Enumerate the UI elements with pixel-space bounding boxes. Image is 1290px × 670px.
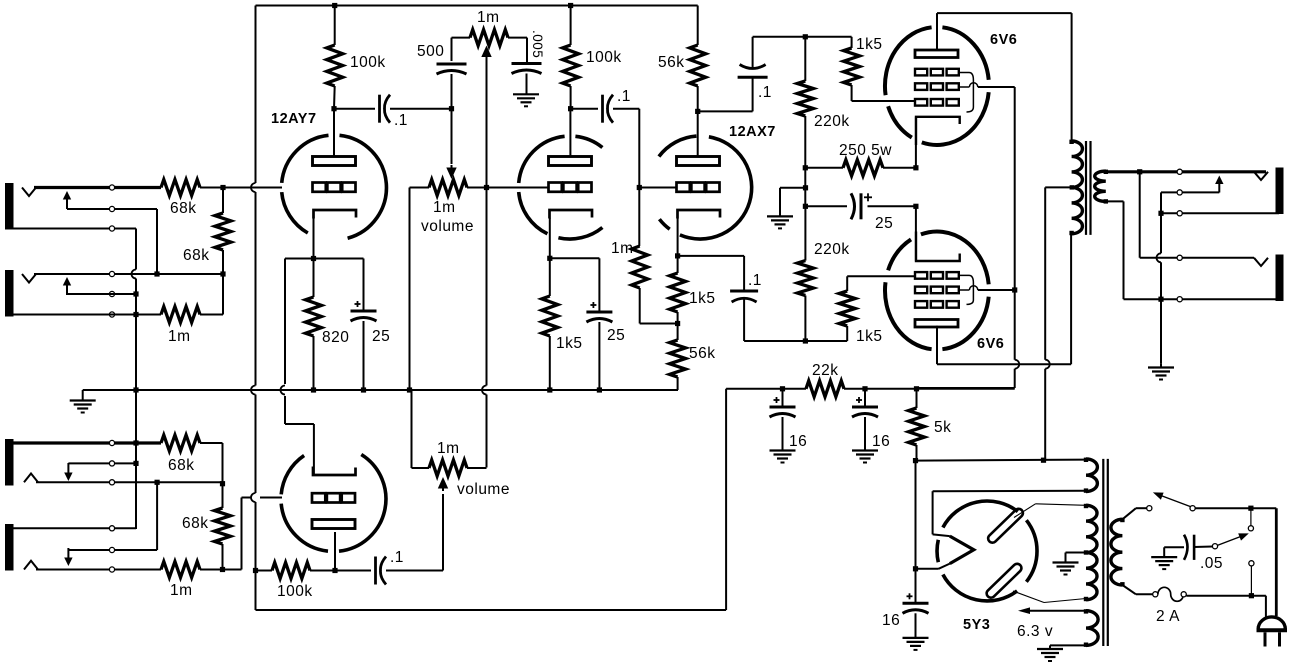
tone pot 1m resistor [452, 30, 528, 46]
PT 6.3V winding [1084, 609, 1098, 647]
wire cathode node to C8 [678, 256, 745, 291]
label 1m R21 [170, 582, 193, 599]
resistor R5 820 cathode [306, 259, 322, 391]
wire switch to corner [1195, 507, 1276, 509]
wire C10 to ground [782, 417, 784, 450]
wire plate node right to C7 [698, 77, 753, 111]
wire junction A to V1a grid [223, 187, 282, 189]
ground bus left drop [82, 390, 84, 400]
wire C13 left to ground [1164, 547, 1184, 556]
speaker jack J6 bar [1276, 255, 1284, 302]
label .1 C8 [748, 272, 762, 289]
mains plug P1 [1257, 617, 1288, 647]
resistor R22 100k ch2 plate [256, 563, 336, 579]
wire C11 to ground [864, 417, 866, 450]
wire J4 ring line [68, 549, 157, 551]
wire C4 to bus [363, 321, 365, 390]
wire B+ filter line left [726, 388, 806, 390]
wire J1 ring to node [67, 208, 157, 210]
wire B+ node to PT 5V winding [916, 460, 1087, 461]
PT 6.3V bottom lead [1050, 645, 1086, 648]
switch S2 blade with arrow [1217, 533, 1248, 545]
capacitor C12 16 (reservoir) [903, 569, 929, 614]
switch S2 blade contact [1212, 544, 1217, 549]
wire plate node to C14 [335, 570, 371, 572]
svg-text:2 A: 2 A [1156, 608, 1180, 625]
label 68k R20 [182, 515, 209, 532]
B+ left vertical with hops [251, 6, 256, 611]
wire 220k mid node [804, 168, 806, 207]
input jack J1 (channel 1 bright, sleeve bar) [5, 183, 14, 230]
PT 6.3V top lead with arrow [1018, 607, 1086, 614]
ground symbol (speaker) [1148, 363, 1174, 379]
wire V2 plate lead [569, 109, 571, 157]
wire V3 plate lead [697, 111, 699, 157]
svg-text:68k: 68k [168, 457, 195, 474]
svg-text:12AY7: 12AY7 [271, 111, 317, 127]
capacitor C7 .1 (to upper 6V6) [738, 65, 768, 78]
tube V4 6V6 upper envelope [885, 27, 989, 145]
wire OT secondary top to jacks [1106, 170, 1140, 173]
output transformer secondary coil [1095, 170, 1108, 204]
resistor R6 100k plate (V2) [563, 6, 579, 109]
svg-text:68k: 68k [170, 200, 197, 217]
svg-text:1k5: 1k5 [556, 335, 583, 352]
wire C7 top to grid line [753, 37, 852, 69]
tube V5 internals [915, 232, 960, 328]
label .1 C5 [617, 88, 631, 105]
wire C12 to ground [915, 613, 917, 637]
jack J4 switch arrow [64, 548, 72, 566]
wire tone node down to volume wiper [451, 109, 453, 164]
tube V2 internals [549, 157, 593, 219]
wire J4 sleeve line [9, 527, 136, 529]
label 22k R17 [812, 362, 839, 379]
junction dot 220k R14 bottom [803, 338, 808, 343]
tube V5 G1-G3 tie [959, 275, 974, 304]
label 1m R3 [168, 328, 191, 345]
junction dot speaker gnd at J6 sleeve [1158, 297, 1163, 302]
ground symbol 6.3V winding [1037, 649, 1063, 661]
wire gnd stub [780, 188, 806, 216]
junction dot B+ to 100k R21 (ch2 plate) [253, 568, 258, 573]
wire J5 sleeve line [1161, 212, 1279, 214]
wire V1a cathode lead [313, 218, 315, 259]
speaker jack J5 bar [1276, 168, 1284, 215]
junction dot J5 sleeve [1158, 211, 1163, 216]
junction dot 100k top at rail [332, 3, 337, 8]
contact circle J2 tip [109, 271, 114, 276]
contact circle J2 ring [109, 291, 114, 296]
B+ top rail [256, 5, 698, 7]
capacitor C10 16 (preamp filter) [770, 389, 796, 417]
svg-text:1m: 1m [611, 240, 634, 257]
ground symbol C11 [852, 451, 878, 463]
contact circle J4 ring [109, 547, 114, 552]
tube V3 internals [677, 157, 721, 219]
contact circle J2 sleeve [109, 312, 114, 317]
output transformer core [1086, 141, 1091, 235]
switch S2 lower contact [1249, 561, 1254, 566]
ground symbol HV center tap [1053, 563, 1079, 575]
wire V1b plate lead down [334, 532, 336, 571]
junction dot (136,294) [133, 291, 138, 296]
wire plate node to C5 [571, 108, 598, 110]
label 16 C10 [789, 433, 807, 450]
label 25 C9 [875, 215, 893, 232]
label 250 5w R16 [839, 142, 892, 159]
svg-text:volume: volume [421, 218, 474, 235]
svg-text:500: 500 [417, 43, 444, 60]
wire R19 right and down [200, 443, 223, 484]
ground bus wire [83, 389, 678, 391]
wire plate node to C1 [334, 108, 375, 110]
5Y3 upper plate slot [986, 507, 1024, 544]
label 6V6 upper [990, 32, 1017, 48]
tube V1a 12AY7 envelope [282, 135, 387, 238]
tone pot wiper arrow [481, 46, 491, 60]
resistor R9 56k plate [690, 6, 706, 112]
wire C1 to tone node [390, 108, 452, 110]
svg-text:6.3 v: 6.3 v [1017, 623, 1053, 640]
wire ring drop to jack2 tip [156, 209, 158, 274]
volume pot 2 wiper arrow (up) [438, 477, 448, 491]
wire J1 sleeve [9, 228, 136, 230]
wire B+ node down to reservoir [915, 461, 917, 569]
junction dot 250 left [803, 165, 808, 170]
wire J2 tip line [34, 273, 223, 275]
junction dot cathode node [311, 256, 316, 261]
junction dot C11 top [862, 386, 867, 391]
junction dot 820 at bus [311, 387, 316, 392]
svg-text:.005: .005 [530, 30, 545, 58]
label 68k R19 [168, 457, 195, 474]
capacitor C2 500pf [437, 38, 467, 74]
input jack J2 sleeve bar [5, 270, 14, 317]
wire C13 right to blade2 [1194, 546, 1212, 549]
junction dot J3 ring [133, 461, 138, 466]
wire screen node right [917, 388, 1015, 390]
junction dot C9 right at cathode line [913, 204, 918, 209]
wire V5 cathode up [915, 206, 917, 261]
junction dot bias divider [675, 321, 680, 326]
label 1m R7 [611, 240, 634, 257]
ground symbol C12 [903, 638, 929, 650]
B+ riser right [725, 389, 727, 610]
capacitor C5 .1 (V2 out) [603, 95, 614, 123]
svg-text:12AX7: 12AX7 [729, 124, 776, 140]
volume pot 1 wiper arrow (down) [446, 165, 456, 179]
junction dot tone node (451.5,108.7) [449, 106, 454, 111]
wire V5 plate down and right [937, 234, 1071, 364]
contact circle J5 ring [1177, 190, 1182, 195]
junction dot V1a plate node [331, 106, 336, 111]
svg-text:25: 25 [372, 328, 390, 345]
junction dot ch2 grid feed [220, 567, 225, 572]
junction dot 25uF left [803, 204, 808, 209]
input jack J1 tip contact [22, 188, 36, 197]
5Y3 lower plate slot [985, 562, 1023, 599]
label 1k5 R12 [689, 290, 716, 307]
svg-text:100k: 100k [277, 583, 313, 600]
wire V2 cathode lead [549, 218, 551, 258]
wire C2 bottom to node [451, 74, 453, 109]
capacitor C4 25 cathode bypass [351, 259, 377, 322]
label 25 C4 [372, 328, 390, 345]
PT primary top lead [1122, 508, 1146, 519]
junction dot 5k top [914, 386, 919, 391]
label 1k5 R15 [856, 328, 883, 345]
resistor R21 1m ch2 [161, 562, 200, 578]
resistor R11 1k5 (upper 6V6 grid stopper) [844, 37, 860, 101]
input jack J3 sleeve bar [5, 439, 14, 486]
wire cathode node horizontal [285, 258, 364, 260]
resistor R15 1k5 (lower 6V6 grid stopper) [839, 276, 855, 341]
resistor R19 68k (ch2 series) [161, 435, 200, 451]
wire J3 tip line [36, 481, 223, 483]
volume pot 1 1m resistor [410, 180, 487, 196]
wire J4 tip line [36, 569, 161, 571]
switch S2 upper contact [1248, 526, 1253, 531]
junction dot lower screen [1012, 287, 1017, 292]
wire 5Y3 filament bottom stub [916, 564, 950, 569]
label 1m tone pot [477, 9, 500, 26]
contact circle J1 sleeve [109, 226, 114, 231]
jack J2 switch arrow [63, 277, 71, 295]
junction dot V2 cathode node [547, 256, 552, 261]
svg-text:1m: 1m [477, 9, 500, 26]
switch S1 contact left [1147, 506, 1152, 511]
wire V1b cathode to shared network [285, 424, 314, 475]
input jack J2 tip contact [22, 274, 36, 283]
junction dot V2 grid node [484, 185, 489, 190]
capacitor C9 25 (bias bypass) [805, 193, 916, 219]
screen supply vertical with hop [1015, 87, 1020, 388]
svg-text:22k: 22k [812, 362, 839, 379]
svg-text:1k5: 1k5 [856, 328, 883, 345]
junction dot A (223,187.5) [220, 185, 225, 190]
svg-text:5k: 5k [934, 419, 951, 436]
label volume pot1 [421, 218, 474, 235]
svg-text:220k: 220k [814, 113, 850, 130]
label 1k5 R8 [556, 335, 583, 352]
resistor R18 5k [909, 389, 925, 461]
switch S1 contact right [1190, 506, 1195, 511]
label .1 C1 [394, 112, 408, 129]
junction dot J3 sleeve gnd [133, 440, 138, 445]
label 56k R13 [689, 345, 716, 362]
label 5k R18 [934, 419, 951, 436]
wire V1a plate lead up [333, 109, 335, 157]
wire V2 cathode node horizontal [550, 257, 600, 259]
capacitor C8 .1 (to lower 6V6) [730, 291, 758, 302]
wire tone wiper vertical lower part (to vol2) with hop at bus [482, 188, 487, 468]
svg-text:25: 25 [607, 327, 625, 344]
resistor R2 68k vertical [215, 188, 231, 275]
svg-text:820: 820 [322, 329, 349, 346]
svg-text:.05: .05 [1200, 555, 1223, 572]
speaker jack J5 tip contact [1254, 172, 1268, 180]
label 220k R14 [814, 241, 850, 258]
wire R21 right lead [200, 569, 223, 571]
junction dot B (223,274) [220, 271, 225, 276]
PT HV center tap ground stub [1066, 553, 1087, 563]
ground symbol (PI bias) [767, 216, 793, 228]
wire ch2 grid line to tube [260, 497, 282, 499]
svg-text:6V6: 6V6 [977, 336, 1004, 352]
label 68k R2 [183, 247, 210, 264]
wire J3 tip drop to J4 ring [156, 482, 158, 550]
resistor R1 68k (J1 tip series) [161, 180, 200, 196]
contact circle J3 sleeve [109, 440, 114, 445]
PT 5V top lead [0, 0, 1, 1]
label .005 C3 (rotated) [530, 30, 545, 58]
junction dot V3 cathode node [675, 253, 680, 258]
resistor R3 1m (grid load) [161, 307, 200, 323]
svg-text:.1: .1 [394, 112, 408, 129]
wire R7 bottom to bias divider [640, 323, 678, 325]
wire V2 grid node to tube [487, 187, 549, 189]
contact circle J3 tip [109, 480, 114, 485]
label 820 R5 [322, 329, 349, 346]
label 2 A [1156, 608, 1180, 625]
wire OT center tap [1045, 187, 1071, 460]
ground symbol under C3 [513, 94, 539, 106]
label 1m volume pot2 [437, 440, 460, 457]
wire J1 tip to 68k R1 [34, 186, 161, 189]
wire OT secondary bottom [1106, 201, 1161, 299]
label 5Y3 [963, 617, 990, 633]
junction dot C6 at bus [597, 387, 602, 392]
tube V1b internals [312, 467, 356, 529]
label 16 C12 [882, 612, 900, 629]
svg-text:56k: 56k [689, 345, 716, 362]
svg-text:6V6: 6V6 [990, 32, 1017, 48]
junction dot R8 at bus [547, 387, 552, 392]
tube V2 envelope [519, 136, 603, 239]
label 500 C2 [417, 43, 444, 60]
label .1 C14 [390, 549, 404, 566]
volume pot 2 1m resistor [412, 460, 487, 476]
svg-text:1k5: 1k5 [689, 290, 716, 307]
svg-text:.1: .1 [390, 549, 404, 566]
wire fuse to plug [1186, 596, 1266, 617]
label 100k R6 [586, 49, 622, 66]
junction dot at (157,274) [154, 271, 159, 276]
contact circle J1 ring [109, 206, 114, 211]
ground symbol (main bus) [70, 401, 96, 413]
capacitor C11 16 (screen filter) [852, 389, 878, 417]
label 220k R10 [814, 113, 850, 130]
jack J1 switch arrow [63, 191, 71, 209]
svg-text:25: 25 [875, 215, 893, 232]
ground symbol C10 [770, 451, 796, 463]
wire R3 right lead [200, 314, 223, 316]
label 12AY7 [271, 111, 317, 127]
svg-text:.1: .1 [617, 88, 631, 105]
input jack J4 tip contact [24, 561, 38, 570]
wire V4 plate to OT [937, 13, 1072, 141]
speaker jack J6 tip contact [1254, 258, 1268, 266]
tube V6 5Y3 envelope [937, 501, 1037, 601]
contact circle J3 ring [109, 461, 114, 466]
label 12AX7 [729, 124, 776, 140]
junction dot gnd stub node [803, 185, 808, 190]
wire C6 to bus [598, 322, 600, 390]
contact circle J5 tip [1177, 169, 1182, 174]
5Y3 lower plate line [1013, 591, 1086, 603]
junction dot C10 top [780, 386, 785, 391]
svg-text:1m: 1m [433, 199, 456, 216]
label 16 C11 [872, 433, 890, 450]
input jack J4 sleeve bar [5, 524, 14, 571]
svg-text:68k: 68k [183, 247, 210, 264]
junction dot rectifier output [913, 566, 918, 571]
tube V4 screen exit with hop [959, 83, 1015, 87]
label 68k R1 [170, 200, 197, 217]
junction dot V2 plate node [568, 106, 573, 111]
resistor R16 250 5w [805, 160, 916, 176]
resistor R12 1k5 (V3 bias) [670, 256, 686, 324]
junction dot C4 at bus [361, 387, 366, 392]
tube V5 screen exit with hop [959, 286, 1015, 290]
capacitor C6 25 (V2 cathode bypass) [586, 258, 612, 322]
svg-text:56k: 56k [658, 54, 685, 71]
fuse F1 2A [1153, 587, 1187, 601]
svg-text:100k: 100k [586, 49, 622, 66]
PT 5V winding [1084, 458, 1098, 493]
svg-text:volume: volume [457, 481, 510, 498]
5Y3 filament chevron [950, 536, 974, 564]
svg-text:16: 16 [872, 433, 890, 450]
wire 22k right to 5k [844, 388, 917, 390]
contact circle J1 tip switch [109, 185, 114, 190]
tube V4 internals [915, 50, 960, 145]
wire J3 ring line [68, 462, 136, 464]
speaker ground vertical with hop [1157, 213, 1161, 363]
label 1m volume pot1 [433, 199, 456, 216]
capacitor C1 .1 coupling [380, 95, 391, 123]
wire V3 cathode lead [677, 218, 679, 256]
wire V4 cathode down [915, 117, 917, 168]
resistor R8 1k5 V2 cathode [542, 258, 558, 390]
wire J6 sleeve line [1161, 298, 1279, 300]
label 56k R9 [658, 54, 685, 71]
wire J5 ring drop [1160, 192, 1162, 213]
wire R1 to junction A [200, 187, 223, 189]
label 1k5 R11 [856, 36, 883, 53]
wire J3 sleeve line [9, 441, 161, 444]
PT core [1103, 459, 1108, 646]
resistor R13 56k (V3 tail) [670, 324, 686, 391]
speaker jack J5 switch arrow [1215, 176, 1223, 193]
5Y3 upper plate line [1014, 504, 1086, 518]
tube V1b envelope (flipped) [281, 455, 386, 552]
PT HV winding [1084, 504, 1097, 601]
label 25 C6 [607, 327, 625, 344]
label 6.3 v [1017, 623, 1053, 640]
junction dot jacks ground at bus [133, 387, 138, 392]
wire J5 tip line [1140, 170, 1266, 173]
svg-text:220k: 220k [814, 241, 850, 258]
wire J5 ring line [1161, 191, 1219, 193]
volume pot1 left drop to ground bus [409, 188, 411, 391]
svg-text:16: 16 [882, 612, 900, 629]
junction dot fuse line [1249, 593, 1254, 598]
wire J2 ring line [67, 293, 136, 295]
contact circle J5 sleeve [1177, 211, 1182, 216]
wire tone wiper down to V2 grid node [486, 56, 488, 188]
